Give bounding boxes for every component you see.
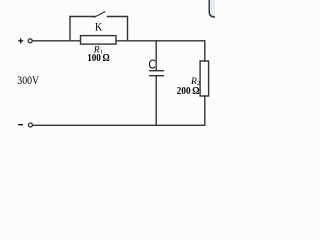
wire xyxy=(33,124,205,126)
wire xyxy=(69,17,71,41)
label C (capacitor designator) xyxy=(149,60,154,68)
resistor R2 xyxy=(200,61,209,96)
resistor R1 xyxy=(81,36,117,45)
svg-text:K: K xyxy=(95,21,102,33)
wire xyxy=(33,40,80,42)
wire xyxy=(116,40,205,42)
svg-text:300V: 300V xyxy=(17,73,39,87)
terminal + xyxy=(28,39,32,43)
label - xyxy=(18,124,23,126)
wire xyxy=(155,76,157,125)
wire xyxy=(204,96,206,125)
wire xyxy=(127,17,129,41)
wire xyxy=(204,41,206,61)
svg-text:200 Ω: 200 Ω xyxy=(177,86,200,97)
capacitor C xyxy=(150,71,164,76)
label + xyxy=(18,38,23,43)
wire xyxy=(155,41,157,71)
svg-text:100 Ω: 100 Ω xyxy=(87,53,109,64)
cropped UI panel corner (top-right) xyxy=(209,0,216,17)
switch K xyxy=(70,12,128,17)
terminal - xyxy=(28,123,32,127)
